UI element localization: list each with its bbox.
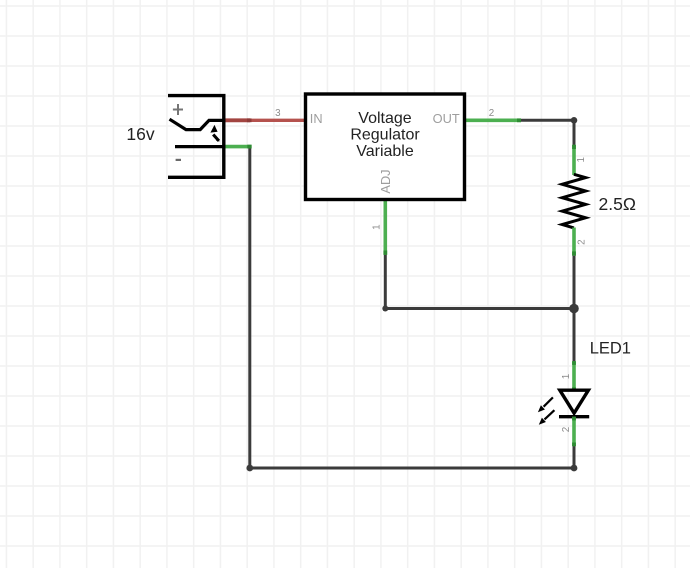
- wire W1 red battery plus to IN: [224, 119, 306, 122]
- wire W3 dark segment ADJ down and right to junction: [385, 254, 574, 309]
- battery minus label: [176, 159, 181, 161]
- pin name OUT: [433, 111, 460, 126]
- svg-text:2.5Ω: 2.5Ω: [599, 194, 636, 214]
- LED D1 pin 2 green stub: [572, 417, 576, 447]
- svg-text:Regulator: Regulator: [350, 126, 420, 143]
- svg-text:Variable: Variable: [356, 143, 414, 160]
- wire left return up to battery minus: [248, 147, 251, 468]
- regulator ADJ pin green stub: [383, 199, 387, 255]
- regulator title: [350, 110, 420, 160]
- LED name label LED1: [590, 340, 631, 358]
- battery minus terminal lead: [175, 145, 224, 148]
- pin number 1 (LED): [561, 374, 572, 379]
- battery value label 16v: [126, 124, 154, 144]
- wire segment LED bottom to bottom rail: [573, 445, 576, 469]
- svg-text:LED1: LED1: [590, 340, 631, 358]
- svg-text:1: 1: [576, 157, 587, 162]
- svg-text:IN: IN: [310, 111, 323, 126]
- LED D1 triangle: [560, 390, 589, 413]
- svg-text:16v: 16v: [126, 124, 154, 144]
- node corner dot at ADJ wire corner: [382, 306, 388, 312]
- svg-text:2: 2: [489, 108, 494, 119]
- battery lightning bolt: [210, 125, 219, 142]
- svg-text:1: 1: [371, 224, 382, 229]
- svg-text:2: 2: [561, 427, 572, 432]
- pin name ADJ: [378, 169, 393, 193]
- pin name IN: [310, 111, 323, 126]
- wire W4 bottom rail: [250, 467, 574, 470]
- op-amp U1 voltage regulator box: [306, 94, 465, 200]
- node corner dot at OUT wire corner: [571, 117, 578, 124]
- resistor R1 wire to junction: [573, 256, 576, 309]
- junction node J1 resistor/LED/ADJ: [569, 304, 579, 314]
- LED light arrow 2: [539, 410, 555, 425]
- svg-text:ADJ: ADJ: [378, 169, 393, 193]
- node dot bottom left: [246, 465, 253, 472]
- svg-text:2: 2: [577, 239, 588, 244]
- resistor R1 pin 1 green stub: [572, 145, 576, 175]
- LED light arrow 1: [538, 397, 553, 412]
- svg-text:3: 3: [275, 108, 281, 119]
- node dot bottom right: [571, 465, 578, 472]
- wire W5 green battery minus stub: [224, 145, 252, 149]
- pin number 1 (ADJ): [371, 224, 382, 229]
- wire W2 dark segment OUT to resistor top corner: [519, 120, 574, 146]
- svg-text:OUT: OUT: [433, 111, 460, 126]
- pin number 2 (LED): [561, 427, 572, 432]
- battery plus label: [173, 104, 183, 115]
- svg-text:Voltage: Voltage: [358, 110, 411, 127]
- pin number 2 (R1): [577, 239, 588, 244]
- pin number 3 (IN): [275, 108, 281, 119]
- LED D1 pin 1 green stub: [572, 361, 576, 391]
- value label 2.5 ohm: [599, 194, 636, 214]
- battery plus terminal lead: [170, 119, 224, 129]
- resistor R1 zigzag body: [562, 174, 585, 228]
- resistor R1 pin 2 green stub: [572, 228, 576, 256]
- battery PS1 16v power supply outline: [168, 96, 224, 178]
- pin number 1 (R1): [576, 157, 587, 162]
- pin number 2 (OUT): [489, 108, 494, 119]
- LED D1 cathode bar: [559, 415, 589, 418]
- regulator OUT pin green stub: [465, 119, 522, 123]
- svg-text:1: 1: [561, 374, 572, 379]
- wire segment junction to LED: [573, 309, 576, 363]
